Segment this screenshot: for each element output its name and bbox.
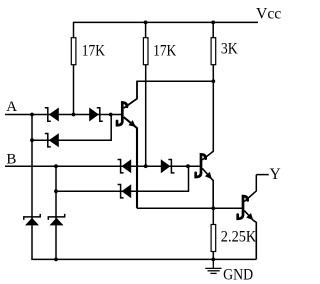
wire Vcc rail [74, 21, 259, 23]
svg-text:Y: Y [270, 166, 281, 183]
svg-text:17K: 17K [153, 42, 177, 59]
diode D4 input B upper [118, 159, 132, 173]
wire R2 bottom lead to node B1 [145, 65, 147, 167]
transistor Q1 base bar [117, 103, 127, 126]
svg-text:2.25K: 2.25K [221, 228, 257, 245]
wire R2 top lead [145, 22, 147, 37]
diode D6 level shift B [161, 159, 175, 173]
wire R4 bottom lead [212, 252, 214, 260]
wire R1 bottom lead [73, 65, 75, 115]
svg-text:GND: GND [223, 266, 253, 283]
node dot B clamp to rail [54, 258, 58, 262]
transistor Q2 collector [202, 81, 213, 160]
wire input A row [5, 114, 121, 116]
node dot A lower row [30, 138, 34, 142]
node dot R1 to A row [72, 113, 76, 117]
wire R1 top lead [73, 22, 75, 38]
wire B lower row [56, 166, 189, 191]
svg-text:3K: 3K [221, 40, 239, 57]
transistor Q3 collector [244, 175, 256, 202]
wire R3 top lead [212, 22, 214, 37]
diode DB input B clamp [48, 214, 64, 226]
transistor Q1 emitter [124, 117, 137, 208]
transistor Q3 emitter [244, 211, 256, 260]
wire output Y [256, 174, 269, 176]
svg-text:B: B [6, 152, 16, 168]
wire input A vertical branch [31, 115, 33, 260]
transistor Q2 emitter [202, 168, 213, 208]
ground [205, 259, 221, 273]
diode D2 input A lower [45, 133, 59, 147]
node dot emitter bus [211, 206, 215, 210]
node collector junction dot [211, 79, 215, 83]
node dot Q2 base [186, 164, 190, 168]
node dot rail R2 [144, 21, 148, 25]
svg-text:Vcc: Vcc [256, 5, 281, 22]
transistor Q2 base bar [196, 154, 206, 177]
wire Q1 collector to R3 node [136, 80, 213, 82]
diode DA input A clamp [24, 214, 40, 226]
node dot Q1 base [109, 113, 113, 117]
wire emitter bus to Q3 base [137, 207, 242, 209]
resistor R1 body [71, 38, 76, 65]
resistor R4 body [211, 225, 216, 252]
node dot B row [54, 164, 58, 168]
diode D3 level shift A [89, 108, 103, 122]
node dot rail R3 [211, 21, 215, 25]
diode D1 input A upper [45, 108, 59, 122]
node dot A row [30, 113, 34, 117]
wire bottom rail [31, 258, 256, 260]
resistor R2 body [143, 38, 148, 65]
wire A lower row [32, 115, 111, 141]
node dot R2 to B row [144, 164, 148, 168]
wire R4 top lead [212, 208, 214, 224]
svg-text:17K: 17K [82, 42, 106, 59]
transistor Q3 emitter arrow [246, 213, 253, 220]
svg-text:A: A [6, 99, 17, 115]
transistor Q1 collector [124, 81, 137, 108]
wire R3 bottom lead [212, 65, 214, 82]
transistor Q3 base bar [238, 196, 248, 219]
transistor Q2 emitter arrow [205, 172, 212, 179]
resistor R3 body [211, 38, 216, 65]
transistor Q1 emitter arrow [128, 120, 135, 127]
wire input B row [5, 165, 201, 167]
wire input B vertical branch [55, 166, 57, 259]
node dot ground junction [211, 258, 215, 262]
diode D5 input B lower [118, 184, 132, 198]
node dot B lower row [54, 189, 58, 193]
